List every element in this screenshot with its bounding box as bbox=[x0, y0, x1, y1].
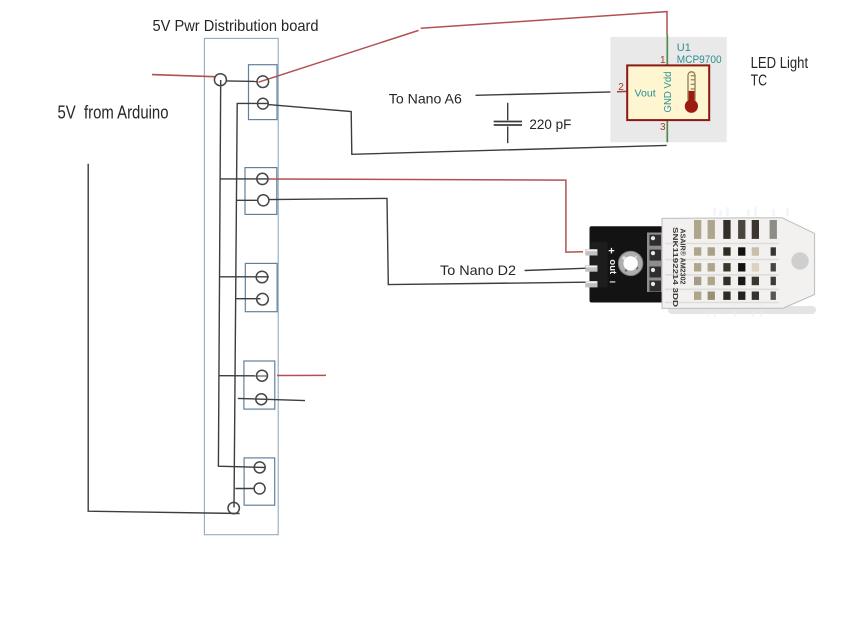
wire: bus B to TB5 pin2 bbox=[235, 488, 254, 490]
svg-text:Vout: Vout bbox=[635, 88, 656, 99]
capacitor C1 220pF bbox=[494, 103, 522, 143]
svg-text:U1: U1 bbox=[677, 42, 691, 54]
svg-text:+: + bbox=[608, 245, 614, 257]
node TB3 pin2 bbox=[257, 293, 269, 305]
wire: vertical bus B from TB1 pin2 bbox=[234, 103, 268, 507]
wire: To Nano D2 to DHT22 out pin bbox=[525, 268, 587, 270]
black PCB bbox=[590, 226, 665, 302]
node TB5 pin1 bbox=[254, 462, 265, 473]
shadow under sensor bbox=[668, 306, 816, 314]
wire: left return line bbox=[88, 164, 239, 514]
wire: bus B through TB4 pin2 stub bbox=[238, 398, 305, 400]
svg-text:1: 1 bbox=[660, 55, 666, 66]
thermometer icon bbox=[688, 72, 695, 103]
molded ridge shading bbox=[665, 244, 779, 303]
svg-text:3: 3 bbox=[660, 122, 666, 133]
header pin 1 (+) bbox=[585, 249, 597, 255]
node TB3 pin1 bbox=[256, 271, 268, 283]
sensor solder pins bbox=[650, 235, 662, 292]
wire: vertical bus A from junction bbox=[218, 80, 265, 468]
white sensor body bbox=[662, 218, 815, 309]
wire: TB1 pin2 to MCP9700 pin3 bbox=[268, 105, 666, 155]
svg-text:To Nano A6: To Nano A6 bbox=[389, 90, 462, 106]
connector body bbox=[591, 242, 608, 287]
wire: bus A to TB3 pin1 bbox=[220, 276, 269, 278]
svg-text:–: – bbox=[610, 276, 616, 288]
body U1 bbox=[627, 65, 709, 120]
wire: red diagonal to MCP9700 (segment 1) bbox=[259, 30, 419, 82]
header pin 2 (out) bbox=[585, 265, 597, 271]
wire: TB2 pin2 to DHT22 minus pin bbox=[269, 198, 586, 284]
header pin 3 (-) bbox=[585, 281, 597, 287]
terminal block TB2 bbox=[245, 168, 277, 215]
wire: bus A to TB4 pin1 bbox=[219, 375, 268, 377]
pin 1 line bbox=[666, 35, 668, 66]
wire: red TB2 pin1 to DHT22 plus pin bbox=[268, 179, 583, 252]
junction node: bottom return bbox=[228, 502, 239, 513]
svg-text:220 pF: 220 pF bbox=[529, 116, 571, 132]
terminal block TB1 bbox=[249, 65, 278, 120]
DHT22 module bbox=[585, 206, 816, 317]
node TB1 pin1 bbox=[257, 76, 269, 88]
svg-text:LED Light: LED Light bbox=[751, 55, 809, 72]
svg-text:SNK1192214 3DD: SNK1192214 3DD bbox=[671, 227, 680, 308]
terminal block TB3 bbox=[245, 263, 277, 311]
pin 3 line bbox=[666, 120, 668, 142]
vent grid bbox=[694, 220, 777, 300]
wire: bus B to TB2 pin2 bbox=[237, 199, 258, 201]
row2 bbox=[694, 247, 701, 255]
MCP9700 sensor U1 bbox=[610, 35, 726, 143]
junction node: main input bbox=[214, 74, 226, 86]
svg-text:2: 2 bbox=[618, 82, 624, 93]
node TB4 pin1 bbox=[257, 370, 268, 381]
wire: junction to TB1 pin1 bbox=[226, 80, 257, 83]
wire: red 5V input from left bbox=[152, 75, 215, 77]
terminal block TB5 bbox=[244, 458, 275, 505]
node TB2 pin1 bbox=[257, 173, 268, 184]
terminal block TB4 bbox=[244, 361, 275, 409]
node TB5 pin2 bbox=[254, 483, 265, 494]
node TB4 pin2 bbox=[256, 394, 267, 405]
svg-text:TC: TC bbox=[751, 72, 768, 89]
svg-text:out: out bbox=[607, 259, 618, 275]
distribution board outline bbox=[204, 38, 278, 534]
wire: red diagonal to MCP9700 (segment 2) bbox=[421, 12, 667, 35]
solder pad plate bbox=[647, 233, 665, 293]
faint watermark bbox=[713, 206, 789, 216]
wire: To Nano A6 to MCP9700 pin2 bbox=[476, 92, 618, 96]
pin 2 stub bbox=[617, 90, 627, 92]
svg-text:GND Vdd: GND Vdd bbox=[663, 72, 674, 113]
mounting hole bbox=[618, 251, 642, 275]
wire: red stub from TB4 pin1 bbox=[277, 374, 326, 376]
row3 bbox=[694, 263, 701, 271]
svg-text:MCP9700: MCP9700 bbox=[677, 54, 722, 66]
svg-text:5V from Arduino: 5V from Arduino bbox=[58, 102, 169, 122]
row4 bbox=[694, 277, 701, 286]
svg-text:5V Pwr Distribution board: 5V Pwr Distribution board bbox=[153, 18, 319, 35]
wire: bus B to TB3 pin2 bbox=[236, 298, 260, 300]
node TB2 pin2 bbox=[258, 195, 269, 206]
svg-text:To Nano D2: To Nano D2 bbox=[440, 262, 516, 278]
wire: bus A to TB2 pin1 bbox=[220, 178, 268, 180]
node TB1 pin2 bbox=[258, 98, 269, 109]
row1 tall slots bbox=[694, 220, 701, 239]
row5 bbox=[694, 292, 701, 300]
tab hole bbox=[791, 252, 808, 269]
gray panel bbox=[610, 37, 726, 142]
